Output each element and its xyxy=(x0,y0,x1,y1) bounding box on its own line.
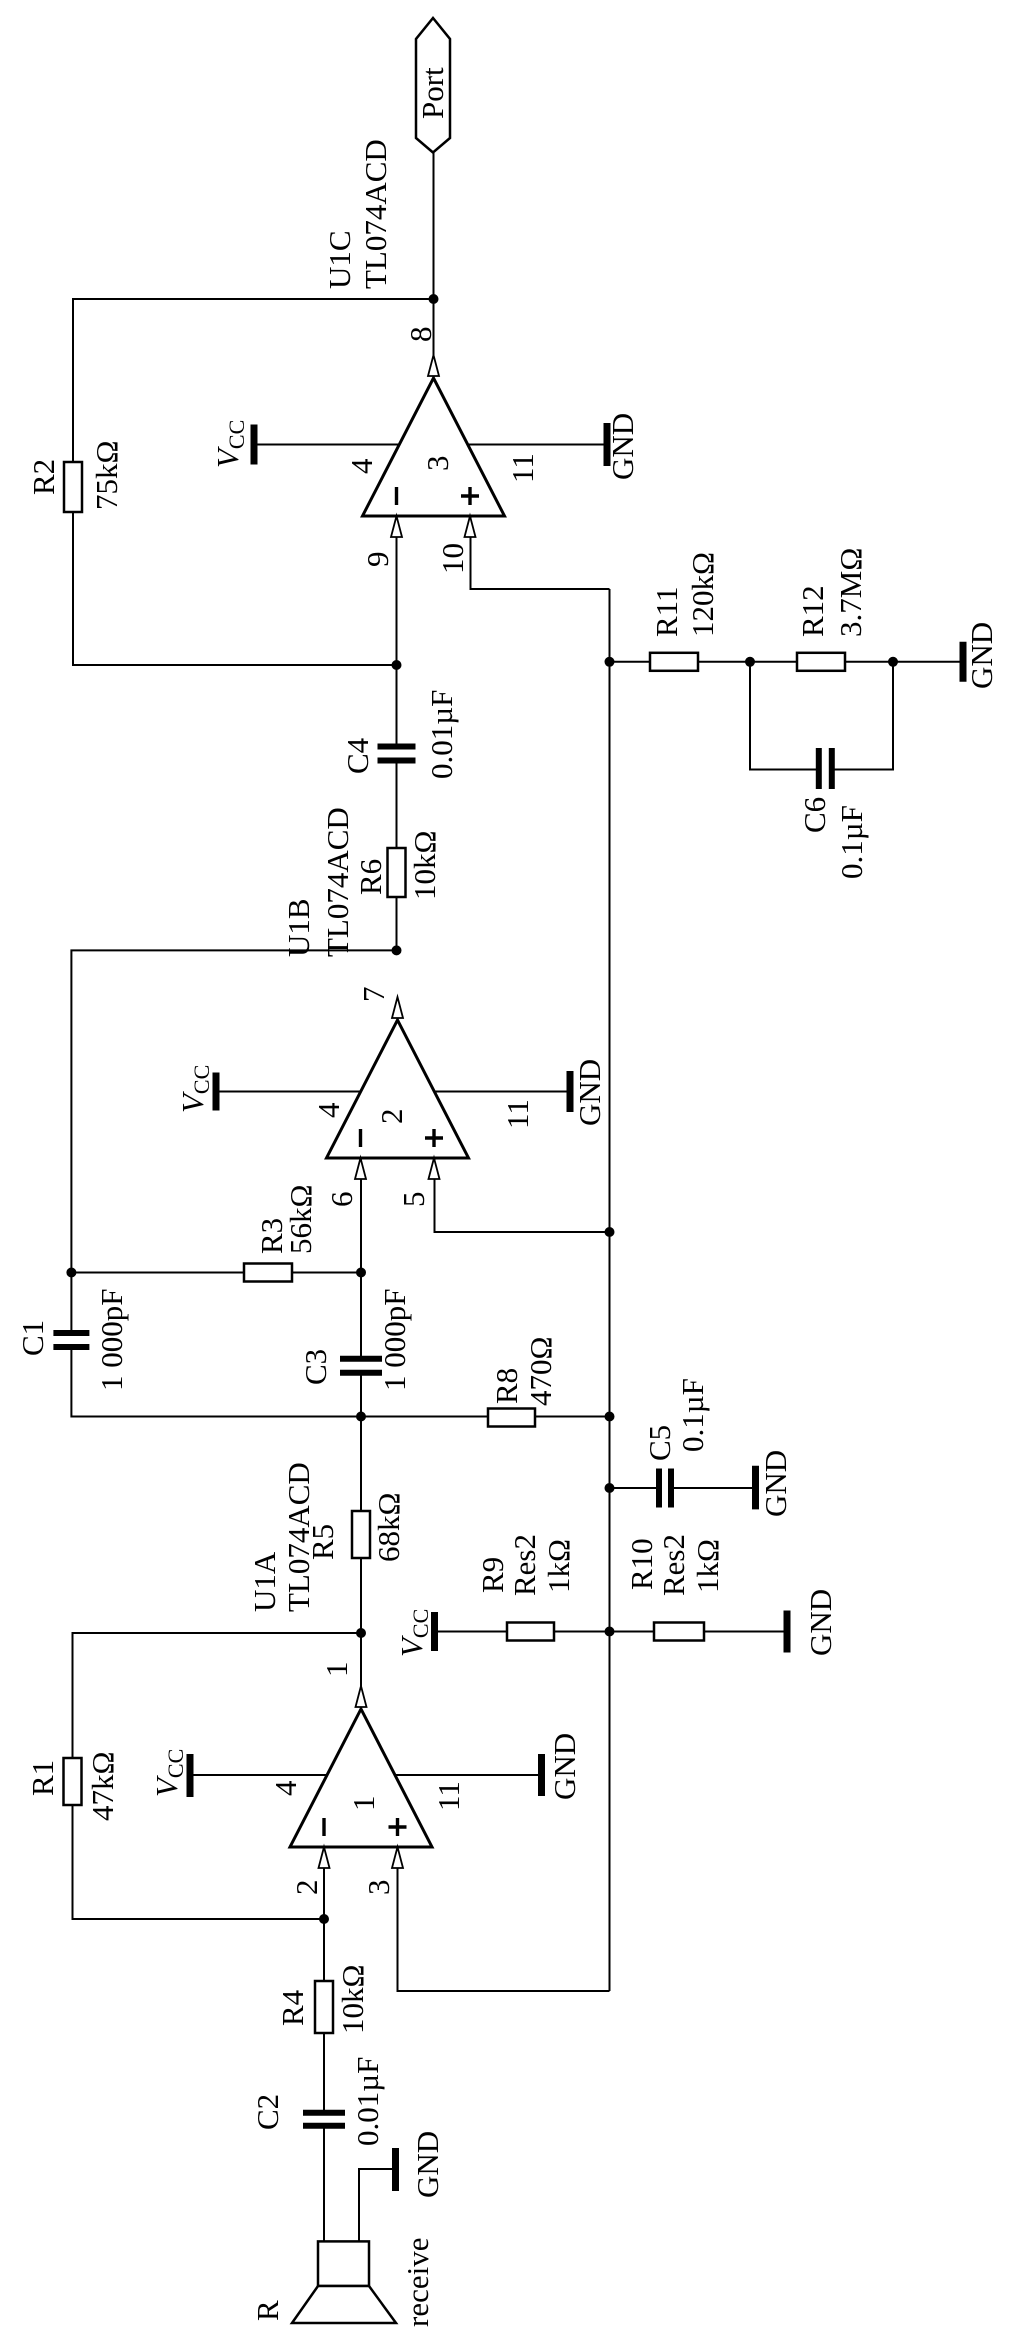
svg-text:3: 3 xyxy=(420,456,455,472)
svg-text:R6: R6 xyxy=(353,859,388,895)
U1C plus sign xyxy=(468,487,471,505)
svg-text:1 000pF: 1 000pF xyxy=(377,1289,412,1392)
svg-text:TL074ACD: TL074ACD xyxy=(358,139,393,289)
svg-text:GND: GND xyxy=(605,413,640,480)
svg-text:11: 11 xyxy=(500,1099,535,1129)
U1B plus sign xyxy=(432,1129,435,1147)
svg-text:8: 8 xyxy=(403,327,438,343)
wire speaker to C2 xyxy=(323,2126,325,2242)
svg-text:4: 4 xyxy=(311,1102,346,1118)
junction node C5 / rail xyxy=(605,1483,615,1493)
svg-text:120kΩ: 120kΩ xyxy=(685,552,720,637)
U1A non-inverting input arrow xyxy=(392,1847,403,1868)
resistor R6 xyxy=(388,848,406,897)
svg-text:C5: C5 xyxy=(642,1425,677,1461)
wire C2 through R4 to node xyxy=(323,1919,325,2113)
junction node pin5 / rail xyxy=(605,1227,615,1237)
svg-text:2: 2 xyxy=(374,1109,409,1125)
wire U1C pin 11 to GND xyxy=(468,444,604,446)
wire R10 branch xyxy=(610,1631,784,1633)
svg-text:GND: GND xyxy=(410,2131,445,2198)
svg-text:R4: R4 xyxy=(275,1989,310,2026)
svg-text:0.01µF: 0.01µF xyxy=(424,690,459,779)
junction node R12 / C6 / GND xyxy=(888,657,898,667)
wire C6 left leg xyxy=(750,662,819,770)
svg-text:5: 5 xyxy=(396,1192,431,1208)
U1A plus sign xyxy=(396,1818,399,1836)
wire node to C3 xyxy=(360,1373,362,1417)
VCC symbol U1C xyxy=(251,425,258,465)
svg-text:75kΩ: 75kΩ xyxy=(89,440,124,510)
U1C output arrow xyxy=(428,355,439,376)
wire R6 to C4 xyxy=(396,761,398,951)
op-amp U1C xyxy=(363,378,505,516)
svg-text:C4: C4 xyxy=(340,737,375,774)
svg-text:VCC: VCC xyxy=(394,1609,433,1657)
wire bias rail xyxy=(609,589,611,1991)
wire C6 right leg xyxy=(832,662,894,770)
U1B inverting input arrow xyxy=(355,1158,366,1179)
wire speaker to GND xyxy=(359,2169,392,2241)
U1B output arrow xyxy=(392,997,403,1018)
svg-text:470Ω: 470Ω xyxy=(523,1336,558,1406)
svg-text:3.7MΩ: 3.7MΩ xyxy=(833,548,868,637)
svg-text:Res2: Res2 xyxy=(656,1534,691,1596)
svg-text:47kΩ: 47kΩ xyxy=(85,1751,120,1821)
capacitor C4 xyxy=(378,758,416,764)
svg-text:VCC: VCC xyxy=(149,1749,188,1797)
U1A inverting input arrow xyxy=(319,1847,330,1868)
svg-text:0.1µF: 0.1µF xyxy=(675,1378,710,1452)
junction node R2 / C4 / pin9 xyxy=(392,660,402,670)
ground C5 xyxy=(752,1466,759,1510)
wire R1 feedback loop xyxy=(73,1633,362,1919)
wire R11 R12 chain xyxy=(610,661,960,663)
capacitor C1 xyxy=(53,1344,89,1350)
wire U1B feedback loop lower xyxy=(71,1347,609,1417)
junction node R3 / pin6 xyxy=(356,1268,366,1278)
op-amp U1B xyxy=(327,1020,469,1158)
wire U1B pin 4 to VCC xyxy=(220,1091,361,1093)
wire R9 branch xyxy=(438,1631,610,1633)
ground R12 chain xyxy=(960,642,967,682)
VCC symbol U1A xyxy=(187,1754,194,1797)
svg-text:R: R xyxy=(250,2300,285,2321)
resistor R3 xyxy=(244,1264,292,1282)
svg-text:3: 3 xyxy=(361,1880,396,1896)
junction node R1 / R4 / pin2 xyxy=(319,1914,329,1924)
junction node R9 / R10 / rail xyxy=(605,1627,615,1637)
junction node C1 / R3 xyxy=(66,1268,76,1278)
ground U1C xyxy=(604,423,611,466)
resistor R8 xyxy=(488,1409,535,1427)
capacitor C6 xyxy=(816,748,822,789)
svg-text:Port: Port xyxy=(415,67,450,119)
svg-text:0.1µF: 0.1µF xyxy=(834,805,869,879)
svg-text:1: 1 xyxy=(346,1796,381,1812)
svg-text:10kΩ: 10kΩ xyxy=(407,830,442,900)
ground U1B xyxy=(567,1071,574,1112)
U1B non-inverting input arrow xyxy=(429,1158,440,1179)
svg-text:GND: GND xyxy=(964,622,999,689)
wire rail to C5 xyxy=(610,1487,660,1489)
wire rail to U1C pin 10 xyxy=(471,516,610,589)
junction node U1B output / R6 xyxy=(392,945,402,955)
resistor R9 xyxy=(507,1623,554,1641)
wire U1A output through R5 xyxy=(360,1417,362,1710)
wire U1A pin 4 to VCC xyxy=(194,1774,328,1776)
svg-text:C6: C6 xyxy=(797,797,832,833)
svg-text:1 000pF: 1 000pF xyxy=(94,1289,129,1392)
svg-text:U1A: U1A xyxy=(247,1551,282,1612)
resistor R4 xyxy=(315,1981,333,2033)
svg-text:R1: R1 xyxy=(25,1760,60,1796)
wire C5 to GND xyxy=(671,1487,752,1489)
svg-text:R10: R10 xyxy=(624,1538,659,1590)
wire node to U1C pin 9 xyxy=(396,516,398,665)
U1B minus sign xyxy=(359,1129,362,1147)
wire rail to U1B pin 5 xyxy=(435,1158,610,1232)
svg-text:U1B: U1B xyxy=(281,898,316,957)
U1C minus sign xyxy=(395,487,398,505)
svg-text:2: 2 xyxy=(289,1880,324,1896)
wire output U1C to Port xyxy=(433,153,435,379)
svg-text:GND: GND xyxy=(758,1450,793,1517)
svg-text:56kΩ: 56kΩ xyxy=(283,1184,318,1254)
wire R3 branch xyxy=(71,1272,361,1274)
svg-text:R8: R8 xyxy=(489,1368,524,1404)
svg-text:VCC: VCC xyxy=(210,420,249,468)
U1A minus sign xyxy=(322,1818,325,1836)
svg-text:1: 1 xyxy=(319,1662,354,1678)
U1C inverting input arrow xyxy=(391,516,402,537)
svg-text:R2: R2 xyxy=(26,459,61,495)
svg-text:C2: C2 xyxy=(250,2094,285,2130)
speaker R receive xyxy=(318,2241,369,2286)
VCC symbol R9 xyxy=(431,1612,438,1651)
wire R2 feedback loop xyxy=(73,299,434,665)
wire C4 to node xyxy=(396,665,398,747)
wire U1A pin 11 to GND xyxy=(395,1774,538,1776)
capacitor C2 xyxy=(303,2123,345,2129)
wire U1B feedback loop upper xyxy=(71,950,396,1333)
resistor R11 xyxy=(650,653,698,671)
svg-text:11: 11 xyxy=(431,1781,466,1811)
svg-text:C3: C3 xyxy=(298,1349,333,1385)
svg-text:C1: C1 xyxy=(15,1320,50,1356)
svg-text:GND: GND xyxy=(572,1059,607,1126)
capacitor C5 xyxy=(656,1469,662,1508)
wire C3 to U1B pin 6 xyxy=(360,1158,362,1359)
capacitor C3 xyxy=(340,1370,382,1376)
port symbol xyxy=(416,18,450,153)
wire U1A pin 3 branch xyxy=(398,1847,610,1991)
junction node output U1C / R2 / Port xyxy=(429,294,439,304)
wire U1B pin 11 to GND xyxy=(434,1091,566,1093)
svg-text:GND: GND xyxy=(547,1733,582,1800)
svg-text:68kΩ: 68kΩ xyxy=(371,1492,406,1562)
U1C non-inverting input arrow xyxy=(465,516,476,537)
svg-text:R9: R9 xyxy=(475,1557,510,1593)
svg-text:7: 7 xyxy=(356,987,391,1003)
svg-text:10: 10 xyxy=(435,543,470,574)
junction node R8 / rail xyxy=(605,1412,615,1422)
op-amp U1A xyxy=(290,1709,432,1847)
VCC symbol U1B xyxy=(213,1073,220,1111)
junction node R11 / rail xyxy=(605,657,615,667)
junction node C3 / R5 / R8 xyxy=(356,1412,366,1422)
svg-text:U1C: U1C xyxy=(322,230,357,289)
svg-text:6: 6 xyxy=(324,1192,359,1208)
svg-text:0.01µF: 0.01µF xyxy=(350,2057,385,2146)
svg-text:4: 4 xyxy=(344,458,379,474)
svg-text:1kΩ: 1kΩ xyxy=(690,1539,725,1593)
svg-text:4: 4 xyxy=(268,1780,303,1796)
svg-text:R11: R11 xyxy=(649,586,684,637)
svg-text:Res2: Res2 xyxy=(507,1534,542,1596)
ground R10 xyxy=(784,1611,791,1653)
resistor R2 xyxy=(64,462,82,512)
svg-text:11: 11 xyxy=(505,453,540,483)
resistor R5 xyxy=(352,1511,370,1558)
junction node R5 / R1 / pin1 xyxy=(356,1628,366,1638)
wire U1C pin 4 to VCC xyxy=(258,444,400,446)
resistor R10 xyxy=(654,1623,704,1641)
svg-text:GND: GND xyxy=(803,1589,838,1656)
wire node to U1A pin 2 xyxy=(323,1847,325,1919)
svg-text:VCC: VCC xyxy=(175,1065,214,1113)
ground U1A xyxy=(538,1754,545,1796)
svg-text:R12: R12 xyxy=(795,585,830,637)
svg-text:TL074ACD: TL074ACD xyxy=(320,807,355,957)
svg-text:receive: receive xyxy=(400,2238,435,2327)
svg-text:TL074ACD: TL074ACD xyxy=(281,1462,316,1612)
ground speaker xyxy=(392,2148,399,2191)
resistor R1 xyxy=(64,1758,82,1805)
svg-text:9: 9 xyxy=(360,552,395,568)
U1A output arrow xyxy=(356,1686,367,1707)
junction node R11 / R12 / C6 xyxy=(745,657,755,667)
svg-text:10kΩ: 10kΩ xyxy=(335,1964,370,2034)
svg-text:1kΩ: 1kΩ xyxy=(541,1539,576,1593)
resistor R12 xyxy=(797,653,845,671)
